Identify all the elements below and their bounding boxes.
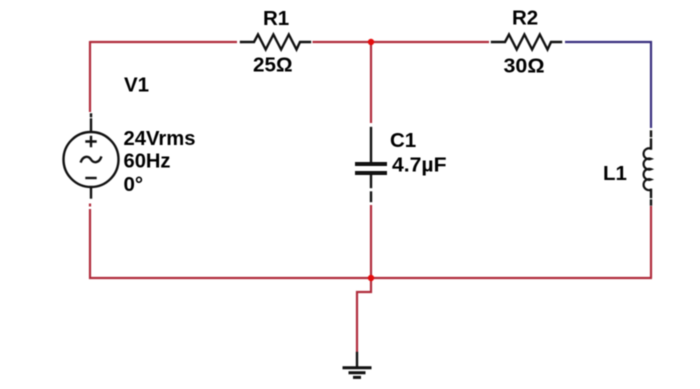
- svg-text:24Vrms: 24Vrms: [124, 127, 196, 150]
- svg-text:R1: R1: [263, 7, 289, 30]
- svg-text:C1: C1: [390, 129, 416, 152]
- svg-text:L1: L1: [603, 162, 627, 185]
- svg-text:30Ω: 30Ω: [504, 55, 545, 78]
- svg-text:V1: V1: [124, 74, 149, 97]
- svg-text:R2: R2: [512, 7, 538, 30]
- svg-text:25Ω: 25Ω: [253, 54, 293, 77]
- svg-text:60Hz: 60Hz: [124, 150, 171, 173]
- svg-text:4.7µF: 4.7µF: [392, 154, 447, 177]
- svg-text:0°: 0°: [124, 173, 144, 196]
